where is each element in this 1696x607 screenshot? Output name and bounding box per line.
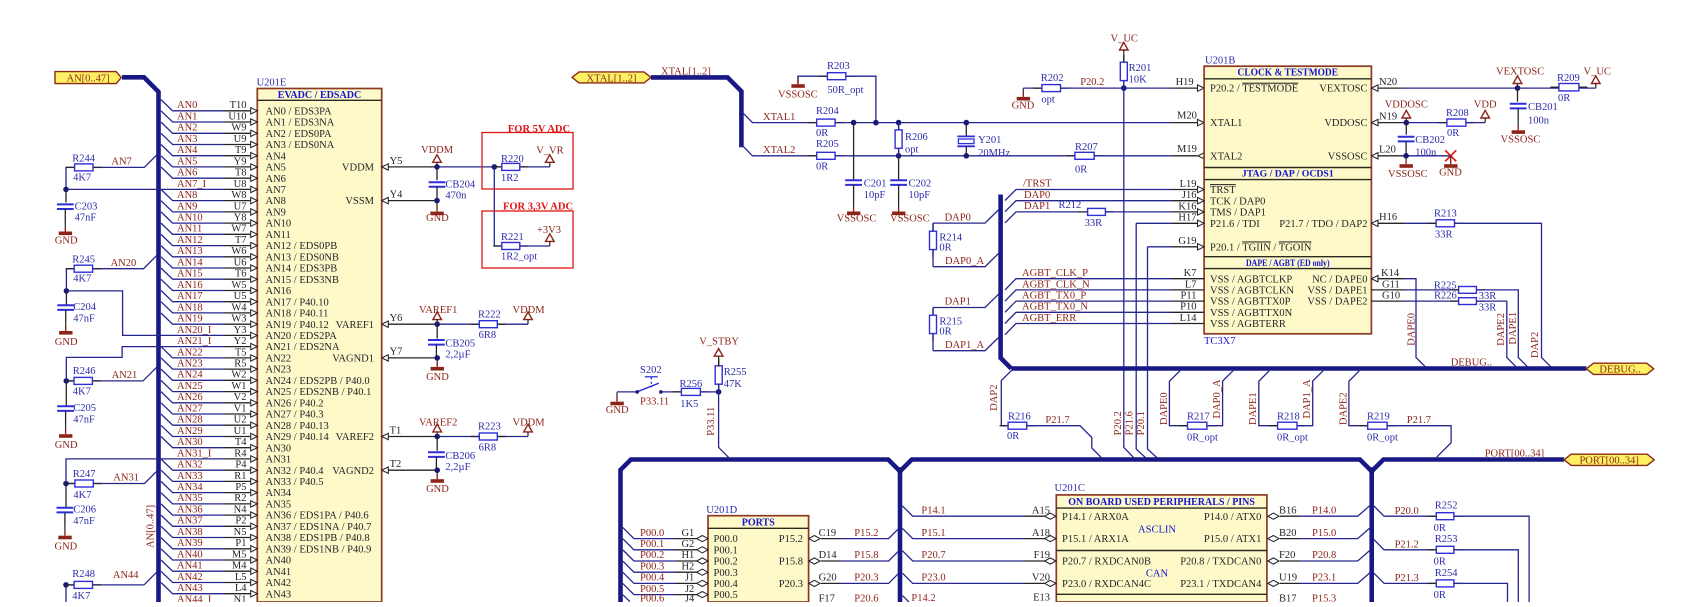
svg-text:R1: R1 [234,471,246,482]
svg-text:VSS / AGBTTX0P: VSS / AGBTTX0P [1210,297,1291,308]
svg-text:AGBT_CLK_P: AGBT_CLK_P [1022,268,1088,279]
svg-text:V_VR: V_VR [536,145,563,156]
svg-text:/TRST: /TRST [1023,179,1052,190]
svg-text:VSSOSC: VSSOSC [1328,151,1368,162]
svg-text:P15.2: P15.2 [779,534,803,545]
svg-text:W6: W6 [231,246,246,257]
svg-text:VSS / AGBTTX0N: VSS / AGBTTX0N [1210,308,1293,319]
svg-text:T4: T4 [235,437,247,448]
svg-text:47nF: 47nF [73,415,95,426]
svg-text:47nF: 47nF [73,313,95,324]
svg-text:T10: T10 [230,100,247,111]
svg-text:AN19 / P40.12: AN19 / P40.12 [266,320,329,331]
svg-text:opt: opt [1041,94,1055,105]
svg-text:K16: K16 [1178,201,1196,212]
svg-text:R2: R2 [234,493,246,504]
svg-text:100n: 100n [1415,148,1437,159]
svg-text:P14.1 / ARX0A: P14.1 / ARX0A [1062,512,1129,523]
svg-text:AN31_I: AN31_I [177,448,212,459]
svg-text:T9: T9 [235,145,247,156]
svg-text:JTAG / DAP / OCDS1: JTAG / DAP / OCDS1 [1242,169,1334,180]
svg-text:DEBUG..: DEBUG.. [1451,357,1492,368]
svg-text:AN29 / P40.14: AN29 / P40.14 [266,432,330,443]
svg-text:VDD: VDD [1474,100,1497,111]
svg-text:AN12 / EDS0PB: AN12 / EDS0PB [266,241,338,252]
svg-text:AN8: AN8 [177,190,197,201]
svg-text:AN31: AN31 [266,455,292,466]
svg-text:1K5: 1K5 [680,399,698,410]
svg-text:AN24: AN24 [177,370,203,381]
svg-text:VDDOSC: VDDOSC [1324,118,1367,129]
svg-text:0R_opt: 0R_opt [1367,432,1398,443]
svg-text:AN28: AN28 [177,415,203,426]
svg-text:P15.8: P15.8 [779,557,803,568]
svg-text:AN3 / EDS0NA: AN3 / EDS0NA [266,140,335,151]
svg-text:T8: T8 [235,168,247,179]
svg-text:W9: W9 [231,123,246,134]
svg-text:P21.7: P21.7 [1407,415,1431,426]
svg-text:20MHz: 20MHz [978,148,1010,159]
svg-text:AN13: AN13 [177,246,203,257]
svg-text:DAP0_A: DAP0_A [1212,379,1223,419]
svg-text:DAP1: DAP1 [1024,201,1050,212]
svg-text:P33.11: P33.11 [706,407,717,436]
svg-text:R208: R208 [1446,108,1469,119]
svg-text:P20.6: P20.6 [854,594,878,603]
svg-text:AN27: AN27 [177,403,203,414]
svg-text:AN23: AN23 [177,359,203,370]
svg-text:V2: V2 [234,392,247,403]
svg-text:2,2µF: 2,2µF [445,462,470,473]
svg-text:R201: R201 [1129,63,1152,74]
svg-text:V_STBY: V_STBY [699,336,739,347]
svg-text:L5: L5 [235,572,247,583]
svg-text:G11: G11 [1382,279,1400,290]
svg-text:AN15 / EDS3NB: AN15 / EDS3NB [266,275,340,286]
svg-text:P00.2: P00.2 [640,550,664,561]
svg-text:AN21 / EDS2NA: AN21 / EDS2NA [266,342,341,353]
svg-text:P20.8: P20.8 [1312,550,1336,561]
svg-text:AN41: AN41 [177,561,203,572]
svg-text:AN43: AN43 [266,589,292,600]
svg-text:VSSOSC: VSSOSC [1388,169,1428,180]
svg-text:DAP1_A: DAP1_A [945,340,985,351]
svg-text:R226: R226 [1434,291,1457,302]
svg-text:AN15: AN15 [177,269,203,280]
svg-text:0R_opt: 0R_opt [1277,432,1308,443]
svg-text:33R: 33R [1479,303,1497,314]
svg-text:E13: E13 [1033,593,1050,603]
svg-text:AN34: AN34 [266,488,292,499]
svg-text:DAPE2: DAPE2 [1496,313,1507,346]
svg-text:R207: R207 [1075,142,1098,153]
svg-text:R212: R212 [1059,200,1082,211]
svg-text:AN21_I: AN21_I [177,336,212,347]
svg-text:AN37: AN37 [177,516,203,527]
svg-text:Y7: Y7 [390,347,403,358]
svg-text:AN4: AN4 [177,145,198,156]
svg-text:AN39 / EDS1NB / P40.9: AN39 / EDS1NB / P40.9 [266,544,372,555]
svg-text:4K7: 4K7 [73,172,91,183]
svg-text:AGBT_CLK_N: AGBT_CLK_N [1022,279,1090,290]
svg-text:P33.11: P33.11 [640,397,669,408]
svg-text:J16: J16 [1182,190,1197,201]
svg-text:Y4: Y4 [390,189,404,200]
svg-text:R255: R255 [724,367,747,378]
svg-text:Y5: Y5 [390,156,403,167]
svg-text:AN36 / EDS1PA / P40.6: AN36 / EDS1PA / P40.6 [266,511,369,522]
svg-text:P14.2: P14.2 [911,593,935,602]
svg-text:AN21: AN21 [112,370,138,381]
svg-text:VSS / AGBTERR: VSS / AGBTERR [1210,319,1286,330]
svg-text:AN20_I: AN20_I [177,325,212,336]
svg-text:VSSOSC: VSSOSC [890,214,930,225]
svg-text:L7: L7 [1185,279,1197,290]
svg-text:M5: M5 [232,549,247,560]
svg-text:K14: K14 [1381,268,1400,279]
svg-text:P15.3: P15.3 [1312,593,1336,602]
svg-text:DAPE / AGBT (ED only): DAPE / AGBT (ED only) [1246,258,1330,269]
svg-text:R213: R213 [1434,208,1457,219]
svg-text:AN10: AN10 [177,213,203,224]
svg-text:470n: 470n [445,191,467,202]
svg-text:AN40: AN40 [266,556,292,567]
svg-text:P23.0: P23.0 [921,573,945,584]
svg-text:R209: R209 [1557,73,1580,84]
svg-text:AN5: AN5 [177,156,197,167]
svg-text:DAP0: DAP0 [945,212,971,223]
svg-text:P20.2 / TESTMODE: P20.2 / TESTMODE [1210,84,1298,95]
svg-text:Y2: Y2 [234,336,247,347]
svg-text:AN7: AN7 [111,157,131,168]
svg-text:AN32 / P40.4: AN32 / P40.4 [266,466,325,477]
svg-text:V_UC: V_UC [1584,66,1611,77]
svg-text:VAGND1: VAGND1 [332,354,374,365]
svg-text:XTAL2: XTAL2 [1210,151,1242,162]
svg-text:AN9: AN9 [177,201,197,212]
svg-text:VDDOSC: VDDOSC [1385,100,1428,111]
svg-text:C206: C206 [73,505,96,516]
svg-text:P5: P5 [235,482,246,493]
svg-text:R222: R222 [478,309,501,320]
svg-text:U8: U8 [234,179,247,190]
svg-text:R202: R202 [1041,73,1064,84]
svg-text:U201D: U201D [706,505,737,516]
svg-text:0R: 0R [1558,93,1570,104]
svg-text:CAN: CAN [1146,568,1169,579]
svg-text:CB205: CB205 [445,339,475,350]
svg-text:AN9: AN9 [266,208,286,219]
svg-text:U7: U7 [234,201,247,212]
svg-text:C202: C202 [909,178,932,189]
svg-text:P15.0: P15.0 [1312,528,1336,539]
svg-text:Y6: Y6 [390,313,403,324]
svg-text:FOR 3,3V ADC: FOR 3,3V ADC [503,201,573,212]
svg-text:W8: W8 [231,190,246,201]
svg-text:P21.6 / TDI: P21.6 / TDI [1210,219,1260,230]
svg-text:AN35: AN35 [177,493,203,504]
svg-text:EVADC / EDSADC: EVADC / EDSADC [278,90,361,101]
svg-text:R256: R256 [680,379,703,390]
svg-text:+3V3: +3V3 [537,225,561,236]
svg-text:K7: K7 [1184,268,1197,279]
svg-text:AN25 / EDS2NB / P40.1: AN25 / EDS2NB / P40.1 [266,387,372,398]
svg-text:GND: GND [426,484,449,495]
svg-text:Y3: Y3 [234,325,247,336]
svg-text:GND: GND [426,213,449,224]
svg-text:AN26: AN26 [177,392,203,403]
svg-text:H1: H1 [681,550,694,561]
svg-text:N5: N5 [234,527,247,538]
svg-text:XTAL1: XTAL1 [1210,118,1242,129]
svg-text:L20: L20 [1379,145,1396,156]
svg-text:P15.1: P15.1 [921,528,945,539]
svg-text:R218: R218 [1277,412,1300,423]
svg-text:M20: M20 [1177,111,1197,122]
svg-text:M19: M19 [1177,144,1197,155]
svg-text:PORTS: PORTS [742,517,775,528]
svg-text:VDDM: VDDM [342,163,375,174]
svg-text:AN38: AN38 [177,527,203,538]
svg-text:AGBT_TX0_N: AGBT_TX0_N [1022,302,1088,313]
svg-text:VAREF1: VAREF1 [419,305,457,316]
svg-text:DEBUG..: DEBUG.. [1599,365,1640,376]
svg-text:AN35: AN35 [266,500,292,511]
svg-text:DAPE0: DAPE0 [1159,392,1170,425]
svg-text:AN38 / EDS1PB / P40.8: AN38 / EDS1PB / P40.8 [266,533,370,544]
svg-text:AN43: AN43 [177,583,203,594]
svg-text:33R: 33R [1085,218,1103,229]
svg-text:VDDM: VDDM [513,417,546,428]
svg-text:C19: C19 [819,528,837,539]
svg-text:GND: GND [426,372,449,383]
svg-text:XTAL1: XTAL1 [763,112,795,123]
svg-text:AN14: AN14 [177,257,203,268]
svg-text:P23.1 / TXDCAN4: P23.1 / TXDCAN4 [1180,579,1262,590]
svg-text:N4: N4 [234,505,248,516]
svg-text:B16: B16 [1279,505,1297,516]
svg-text:AN12: AN12 [177,235,203,246]
svg-text:6R8: 6R8 [479,330,497,341]
svg-text:V20: V20 [1032,573,1050,584]
svg-text:AN40: AN40 [177,549,203,560]
svg-text:VAREF2: VAREF2 [336,432,374,443]
svg-text:P00.3: P00.3 [714,568,738,579]
svg-text:DAPE2: DAPE2 [1338,392,1349,425]
svg-text:J1: J1 [685,573,694,584]
svg-text:Y201: Y201 [978,135,1001,146]
svg-text:VDDM: VDDM [513,305,546,316]
svg-text:A15: A15 [1032,505,1050,516]
svg-text:R4: R4 [234,448,247,459]
svg-text:C205: C205 [73,403,96,414]
svg-text:AN20 / EDS2PA: AN20 / EDS2PA [266,331,338,342]
svg-text:VSSOSC: VSSOSC [778,90,818,101]
svg-text:P00.3: P00.3 [640,561,664,572]
svg-text:DAP2: DAP2 [989,385,1000,411]
svg-text:T1: T1 [390,425,402,436]
svg-text:P15.0 / ATX1: P15.0 / ATX1 [1204,534,1261,545]
svg-text:H19: H19 [1176,77,1194,88]
svg-text:VDDM: VDDM [421,145,454,156]
svg-text:AN30: AN30 [177,437,203,448]
svg-text:P00.1: P00.1 [640,539,664,550]
svg-text:U10: U10 [228,111,246,122]
svg-text:VAGND2: VAGND2 [332,466,374,477]
svg-text:W3: W3 [231,314,246,325]
svg-text:Y8: Y8 [234,213,247,224]
svg-text:R203: R203 [827,61,850,72]
svg-text:0R: 0R [1447,128,1459,139]
svg-text:AN37 / EDS1NA / P40.7: AN37 / EDS1NA / P40.7 [266,522,372,533]
svg-text:F19: F19 [1034,550,1050,561]
svg-text:XTAL2: XTAL2 [763,145,795,156]
svg-text:R204: R204 [816,106,840,117]
svg-text:U201B: U201B [1205,55,1235,66]
svg-text:P15.1 / ARX1A: P15.1 / ARX1A [1062,534,1129,545]
svg-text:P20.3: P20.3 [854,573,878,584]
svg-text:U6: U6 [234,257,247,268]
svg-text:P2: P2 [235,516,246,527]
svg-text:G1: G1 [681,528,694,539]
svg-text:P23.0 / RXDCAN4C: P23.0 / RXDCAN4C [1062,579,1151,590]
svg-text:4K7: 4K7 [73,387,91,398]
svg-text:N1: N1 [234,594,247,602]
svg-text:AN2 / EDS0PA: AN2 / EDS0PA [266,129,333,140]
svg-text:P20.1 / TGIIN / TGOIN: P20.1 / TGIIN / TGOIN [1210,242,1312,253]
svg-text:DAP1_A: DAP1_A [1302,379,1313,419]
svg-text:R220: R220 [501,154,524,165]
svg-text:4K7: 4K7 [73,274,91,285]
svg-text:U9: U9 [234,134,247,145]
svg-text:P20.7: P20.7 [921,550,945,561]
svg-text:AN1: AN1 [177,111,197,122]
svg-text:AN4: AN4 [266,151,287,162]
svg-text:NC / DAPE0: NC / DAPE0 [1312,274,1367,285]
svg-text:P20.8 / TXDCAN0: P20.8 / TXDCAN0 [1180,557,1261,568]
svg-text:AN13 / EDS0NB: AN13 / EDS0NB [266,252,340,263]
svg-text:CB202: CB202 [1415,135,1445,146]
svg-text:GND: GND [55,440,78,451]
svg-text:AN16: AN16 [266,286,292,297]
svg-text:VSSOSC: VSSOSC [1501,134,1541,145]
svg-text:C201: C201 [864,178,887,189]
svg-text:AN18: AN18 [177,302,203,313]
svg-text:P14.0 / ATX0: P14.0 / ATX0 [1204,512,1261,523]
svg-text:0R: 0R [1434,556,1446,567]
svg-text:CB206: CB206 [445,451,475,462]
svg-text:TC3X7: TC3X7 [1204,336,1236,347]
svg-text:XTAL[1..2]: XTAL[1..2] [587,73,637,84]
svg-text:C204: C204 [73,302,97,313]
svg-text:AN27 / P40.3: AN27 / P40.3 [266,410,324,421]
svg-text:VSS / DAPE2: VSS / DAPE2 [1307,297,1367,308]
svg-text:AN19: AN19 [177,314,203,325]
svg-text:R5: R5 [234,359,246,370]
svg-text:AN17: AN17 [177,291,203,302]
svg-text:100n: 100n [1528,115,1550,126]
svg-text:R245: R245 [72,254,95,265]
svg-text:CLOCK & TESTMODE: CLOCK & TESTMODE [1238,67,1339,78]
svg-text:P00.0: P00.0 [640,528,664,539]
svg-text:C203: C203 [75,201,98,212]
svg-text:AN7_I: AN7_I [177,179,207,190]
svg-text:H16: H16 [1379,212,1397,223]
svg-text:opt: opt [905,145,919,156]
svg-text:VSSM: VSSM [345,196,374,207]
svg-text:W5: W5 [231,280,246,291]
svg-text:P21.2: P21.2 [1395,539,1419,550]
svg-text:47nF: 47nF [75,213,97,224]
svg-text:VAREF2: VAREF2 [419,417,457,428]
svg-text:R223: R223 [478,422,501,433]
svg-text:DAP0: DAP0 [1024,190,1050,201]
svg-text:AN41: AN41 [266,567,292,578]
svg-text:AN29: AN29 [177,426,203,437]
svg-text:H17: H17 [1178,213,1196,224]
svg-text:U201C: U201C [1055,483,1085,494]
svg-text:AN23: AN23 [266,365,292,376]
svg-text:AN31: AN31 [113,473,139,484]
svg-text:T6: T6 [235,269,247,280]
svg-text:AN30: AN30 [266,443,292,454]
svg-text:PORT[00..34]: PORT[00..34] [1485,448,1544,459]
svg-text:ASCLIN: ASCLIN [1138,524,1176,535]
svg-text:P20.0: P20.0 [1395,506,1419,517]
svg-text:P20.3: P20.3 [779,579,803,590]
svg-text:P21.3: P21.3 [1395,573,1419,584]
svg-text:P00.1: P00.1 [714,545,738,556]
svg-text:AN1 / EDS3NA: AN1 / EDS3NA [266,118,335,129]
svg-text:P15.8: P15.8 [854,550,878,561]
svg-text:AN0: AN0 [177,100,197,111]
svg-text:0R: 0R [1434,523,1446,534]
svg-text:R221: R221 [501,232,524,243]
svg-text:FOR 5V ADC: FOR 5V ADC [508,124,570,135]
svg-text:P21.6: P21.6 [1124,411,1135,435]
svg-text:VSSOSC: VSSOSC [837,214,877,225]
svg-text:AN44: AN44 [113,570,139,581]
svg-text:AN34: AN34 [177,482,203,493]
svg-text:AN44_I: AN44_I [177,594,212,602]
svg-text:P21.7 / TDO / DAP2: P21.7 / TDO / DAP2 [1279,219,1367,230]
svg-text:T5: T5 [235,347,247,358]
svg-text:G19: G19 [1178,236,1196,247]
svg-text:AN2: AN2 [177,123,197,134]
svg-text:J4: J4 [685,594,695,603]
svg-text:P11: P11 [1181,291,1197,302]
svg-text:10pF: 10pF [864,190,886,201]
svg-text:0R: 0R [939,243,951,254]
svg-text:TCK / DAP0: TCK / DAP0 [1210,196,1265,207]
svg-text:R254: R254 [1435,568,1459,579]
svg-text:AN3: AN3 [177,134,197,145]
svg-text:P20.1: P20.1 [1136,411,1147,435]
svg-text:AN5: AN5 [266,163,286,174]
svg-text:T2: T2 [390,459,402,470]
svg-text:U201E: U201E [257,77,287,88]
svg-text:0R: 0R [816,128,828,139]
svg-text:VEXTOSC: VEXTOSC [1496,66,1544,77]
svg-text:ON BOARD USED PERIPHERALS / PI: ON BOARD USED PERIPHERALS / PINS [1068,497,1255,508]
svg-text:W2: W2 [231,370,246,381]
svg-text:4K7: 4K7 [73,490,91,501]
svg-text:H2: H2 [681,561,694,572]
svg-text:B17: B17 [1279,593,1297,602]
svg-text:AGBT_ERR: AGBT_ERR [1022,313,1076,324]
svg-text:50R_opt: 50R_opt [827,85,863,96]
svg-text:AN33 / P40.5: AN33 / P40.5 [266,477,324,488]
